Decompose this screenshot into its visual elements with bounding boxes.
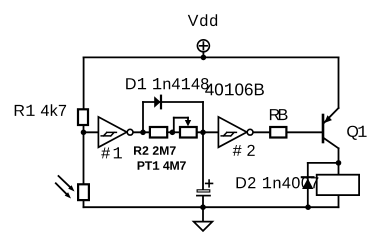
label R1 4k7 [15,104,66,116]
wire left drop from rail to R1 [83,57,85,108]
wire D2 branch down [307,163,309,207]
label #2 [233,145,255,156]
diode D1 cathode bar [160,96,162,109]
label 40106B [205,83,264,95]
node F collector junction dot [336,160,342,166]
transistor Q1 emitter arrow (PNP, pointing to base) [324,115,332,123]
wire inverter #1 output to node B [133,131,149,133]
resistor R1 [78,109,88,125]
capacitor C1 negative plate [197,195,210,197]
wire PT1 wiper up [173,118,175,133]
inverter #1 hysteresis glyph [101,132,116,136]
photoresistor LDR1 body [78,184,89,200]
wire RB to Q1 base [288,131,322,133]
wire relay to bottom rail [338,196,340,207]
transistor Q1 collector diagonal [324,138,339,148]
wire D1 branch left leg [142,102,144,132]
node C junction dot (R2/PT1/wiper) [170,130,176,136]
capacitor C1 plus sign [206,180,213,187]
photoresistor light arrow 2 [56,183,71,198]
inverter #2 hysteresis glyph [221,132,236,136]
resistor R2 [150,127,167,138]
potentiometer PT1 body [180,127,197,138]
capacitor C1 positive plate [197,190,210,192]
wire node A to LDR [83,132,85,183]
wire Q1 collector down [338,148,340,174]
relay K1 coil [317,175,359,195]
label D1 1n4148 [126,78,208,89]
resistor RB [270,127,286,138]
node A (R1 / LDR / inverter input junction) [81,130,87,136]
wire node A to inverter 1 input [84,131,99,133]
wire D1 branch top [143,101,203,103]
wire inverter #2 output to RB [253,131,270,133]
node D junction dot [200,130,206,136]
wire node D down to capacitor [202,132,204,189]
node G junction dot on ground rail [305,204,311,210]
diode D1 triangle [154,96,160,107]
node B junction dot [140,130,146,136]
wire D1 branch right leg [202,102,204,132]
inverter #1 output bubble [127,129,133,135]
potentiometer PT1 wiper arrow [185,118,191,127]
wire LDR to bottom rail [83,201,85,207]
wire capacitor to bottom rail [202,196,204,207]
label D2 1n4007 [237,177,319,188]
power symbol Vdd circle-plus [197,40,209,58]
op-amp U2 inverter #2 triangle [218,117,246,147]
diode D2 cathode bar [302,176,314,178]
label #1 [101,147,122,158]
transistor Q1 emitter diagonal [324,108,339,123]
diode D2 triangle (pointing up) [302,178,313,189]
label RB [270,109,288,120]
label PT1 4M7 [138,161,186,170]
wire node F to D2 branch [308,162,339,164]
wire R1 to node A [83,126,85,132]
wire Q1 emitter to top rail [338,57,340,108]
transistor Q1 base bar [322,115,325,142]
wire PT1 to node D [197,131,218,133]
wire bottom ground rail [84,206,339,208]
op-amp U1 inverter #1 triangle [98,117,126,147]
wire PT1 wiper horizontal [174,117,188,119]
wire top rail Vdd [84,56,339,58]
photoresistor light arrow 1 [59,176,75,192]
label R2 2M7 [134,146,176,155]
ground symbol [194,207,213,231]
wire R2 to PT1 [167,131,178,133]
node E junction dot on ground rail [200,204,206,210]
label Vdd [188,14,217,26]
label Q1 [347,126,366,140]
node H Vdd junction dot [201,55,207,61]
inverter #2 output bubble [247,129,253,135]
